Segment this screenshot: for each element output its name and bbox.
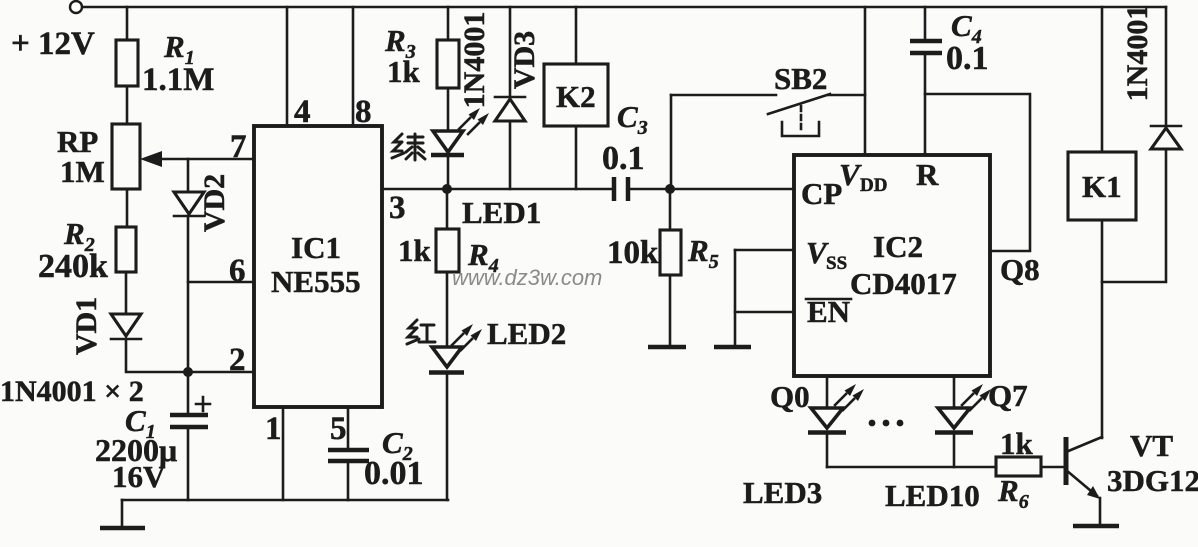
wire pin 3 <box>382 188 612 191</box>
svg-text:LED3: LED3 <box>743 475 822 510</box>
diode VD2 <box>174 174 231 232</box>
wire R3 to LED1 <box>447 88 450 131</box>
wire RP to R2 <box>126 189 129 227</box>
capacitor C3 <box>602 99 648 201</box>
wire SB2 left <box>671 94 776 97</box>
wire EN <box>735 311 794 314</box>
wire LED2 to bottom rail <box>446 373 449 500</box>
potentiometer RP <box>57 124 162 189</box>
wire D4 to collector net <box>1102 149 1166 282</box>
wire bus to K1 <box>1101 7 1104 152</box>
wire Q7 <box>953 376 956 407</box>
svg-text:2: 2 <box>229 342 246 378</box>
wire K2 to pin3 net <box>575 126 578 189</box>
wire LED1 to node3 <box>447 155 450 189</box>
svg-text:LED10: LED10 <box>885 478 980 513</box>
svg-text:CD4017: CD4017 <box>850 266 957 301</box>
resistor R6 <box>996 426 1041 513</box>
wire C1 to bottom rail <box>187 427 190 500</box>
diode VD3 <box>458 12 541 121</box>
svg-text:1M: 1M <box>60 154 105 189</box>
wire bus to R1 <box>126 7 129 40</box>
svg-text:www.dz3w.com: www.dz3w.com <box>452 265 602 290</box>
wire SB2 left vertical <box>670 95 673 189</box>
svg-text:Q8: Q8 <box>1000 252 1040 287</box>
dots ellipsis <box>869 420 904 427</box>
wire pin 5 <box>347 407 350 449</box>
ground VSS <box>714 345 751 350</box>
wire RP wiper to pin 7 <box>158 158 254 161</box>
ground emitter <box>1073 524 1119 529</box>
svg-text:7: 7 <box>230 129 247 165</box>
wire bus to C4 <box>924 7 927 40</box>
resistor R1 <box>116 29 214 98</box>
LED LED2 red <box>429 316 566 373</box>
op-amp IC1 NE555 box <box>254 126 382 407</box>
capacitor C4 <box>910 8 989 77</box>
svg-text:Q7: Q7 <box>988 378 1028 413</box>
wire R6 to base <box>1041 466 1063 469</box>
wire R to Q8 loop <box>925 94 1030 251</box>
svg-text:1N4001 × 2: 1N4001 × 2 <box>0 375 144 408</box>
wire Q0 <box>826 376 829 407</box>
wire C3 to CP <box>628 188 794 191</box>
wire K1 to collector <box>1101 220 1104 438</box>
wire pin 4 <box>286 7 289 126</box>
wire VD2 branch top <box>187 159 190 192</box>
wire R4 to LED2 <box>446 272 449 347</box>
svg-text:Q0: Q0 <box>770 379 810 414</box>
relay K2 <box>544 64 608 126</box>
svg-text:K1: K1 <box>1082 169 1122 204</box>
wire VD2 to node 2 <box>187 216 190 372</box>
svg-text:CP: CP <box>801 176 842 211</box>
wire bottom rail <box>122 499 448 502</box>
label green CJK <box>392 134 425 160</box>
svg-text:1.1M: 1.1M <box>142 62 214 98</box>
svg-text:1k: 1k <box>387 54 421 89</box>
wire R2 to VD1 <box>125 272 128 314</box>
svg-text:240k: 240k <box>38 248 108 285</box>
diode D4 1N4001 <box>1121 5 1181 149</box>
wire VSS <box>735 249 794 252</box>
svg-text:1: 1 <box>265 411 282 447</box>
wire pin 8 <box>352 7 355 126</box>
svg-text:SS: SS <box>826 253 847 274</box>
svg-text:SB2: SB2 <box>774 61 827 96</box>
svg-text:3: 3 <box>389 190 406 226</box>
svg-text:0.1: 0.1 <box>946 40 989 77</box>
wire VDD vertical <box>864 7 867 155</box>
svg-text:V: V <box>839 157 862 192</box>
svg-text:IC2: IC2 <box>873 229 923 264</box>
wire bus to VD3 <box>509 7 512 96</box>
ground R5 <box>648 345 686 350</box>
svg-text:LED2: LED2 <box>487 316 566 351</box>
wire SB2 right <box>828 94 865 97</box>
IC2 CD4017 box <box>794 155 990 376</box>
wire LED cathode rail <box>826 433 829 467</box>
LED LED10 Q7 <box>935 384 991 433</box>
wire VSS to ground <box>734 250 737 347</box>
resistor R5 <box>607 230 719 275</box>
svg-text:VD3: VD3 <box>508 31 541 89</box>
svg-text:NE555: NE555 <box>271 264 361 299</box>
svg-text:R: R <box>916 157 939 192</box>
diode VD1 <box>70 297 141 355</box>
wire C2 to bottom rail <box>347 461 350 500</box>
wire pin2 <box>188 371 254 374</box>
wire bus to R3 <box>447 7 450 40</box>
svg-text:DD: DD <box>860 175 887 196</box>
svg-text:K2: K2 <box>556 79 596 114</box>
svg-text:VD1: VD1 <box>70 297 103 355</box>
wire bus to K2 <box>575 7 578 64</box>
svg-text:0.01: 0.01 <box>364 455 424 492</box>
power terminal <box>70 1 82 13</box>
resistor R4 <box>398 229 499 277</box>
relay K1 <box>1068 152 1136 220</box>
resistor R3 <box>384 23 459 89</box>
ground left <box>100 500 145 528</box>
svg-text:1k: 1k <box>398 233 432 268</box>
wire R5 to ground <box>669 275 672 347</box>
svg-text:8: 8 <box>355 94 372 130</box>
capacitor C2 <box>328 425 424 492</box>
svg-text:6: 6 <box>229 253 246 289</box>
wire C4 to R pin <box>924 53 927 155</box>
svg-text:+ 12V: + 12V <box>11 26 95 62</box>
resistor R2 <box>38 216 136 285</box>
LED LED1 green <box>431 108 541 230</box>
wire emitter to ground <box>1099 498 1102 526</box>
transistor VT 3DG12 <box>1066 428 1198 499</box>
svg-text:0.1: 0.1 <box>602 140 645 177</box>
wire top power bus <box>83 6 1166 9</box>
wire pin 1 <box>282 407 285 500</box>
svg-text:1N4001: 1N4001 <box>458 12 491 109</box>
switch SB2 <box>768 61 830 136</box>
svg-text:1k: 1k <box>1000 426 1034 461</box>
node B junction dot <box>665 184 675 194</box>
svg-text:16V: 16V <box>112 459 166 494</box>
svg-text:1N4001: 1N4001 <box>1121 5 1154 102</box>
wire node3 to R4 <box>446 189 449 229</box>
svg-text:5: 5 <box>330 411 347 447</box>
svg-text:IC1: IC1 <box>291 230 341 265</box>
wire R1 to RP <box>126 86 129 124</box>
svg-text:4: 4 <box>294 94 311 130</box>
svg-text:3DG12: 3DG12 <box>1107 463 1198 498</box>
LED LED3 Q0 <box>808 384 864 433</box>
capacitor C1 <box>95 372 210 494</box>
node 3 junction dot <box>442 184 452 194</box>
label red CJK <box>407 320 435 344</box>
wire node to R5 <box>669 189 672 230</box>
wire VD1 to node 2 <box>126 339 188 372</box>
svg-text:LED1: LED1 <box>462 195 541 230</box>
wire pin 6 <box>188 281 254 284</box>
node A junction dot <box>183 367 193 377</box>
svg-text:10k: 10k <box>607 235 659 271</box>
wire bus to D4 <box>1165 7 1168 126</box>
svg-text:VT: VT <box>1130 428 1173 463</box>
wire VD3 to pin3 net <box>509 121 512 189</box>
svg-text:VD2: VD2 <box>198 174 231 232</box>
